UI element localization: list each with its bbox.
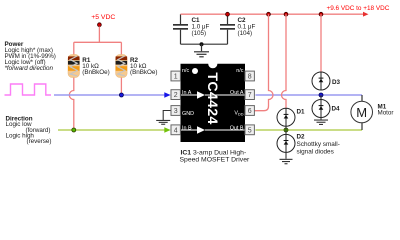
wire R2 lower lead to PWM line <box>120 77 122 95</box>
svg-text:IC1 3-amp Dual High-: IC1 3-amp Dual High- <box>181 150 247 157</box>
resistor R2 <box>116 55 158 78</box>
ground (D2) <box>280 152 293 164</box>
wire motor top lead <box>361 95 363 102</box>
wire cap common bottom <box>181 43 228 45</box>
arrowhead In A <box>164 92 170 98</box>
wire In B direction (green) <box>58 129 167 131</box>
wire R1 lower lead to direction line (hop over blue) <box>69 77 74 130</box>
wire motor bottom lead <box>361 123 363 131</box>
junction rail-C2 dot <box>226 12 230 16</box>
svg-text:Out A: Out A <box>230 90 244 96</box>
svg-text:D2: D2 <box>297 134 306 141</box>
svg-text:signal diodes: signal diodes <box>297 148 334 155</box>
diode D1 <box>277 108 305 130</box>
IC buffer A triangle <box>197 91 205 99</box>
IC pin 6 box <box>245 106 254 116</box>
wire Out A to motor (blue) <box>256 94 363 96</box>
svg-text:Motor: Motor <box>378 110 394 117</box>
svg-text:3: 3 <box>174 108 178 115</box>
svg-text:n/c: n/c <box>182 68 189 74</box>
junction rail-D3 dot <box>319 12 323 16</box>
svg-text:TC4424: TC4424 <box>204 72 220 124</box>
IC pin 7 box <box>245 90 254 100</box>
wire D1 riser (rail to D1) <box>282 14 287 108</box>
IC internal channel B line <box>181 129 245 131</box>
capacitor C2 <box>220 14 255 44</box>
svg-text:n/c: n/c <box>236 68 243 74</box>
svg-text:8: 8 <box>248 74 252 81</box>
IC pin 4 box <box>171 125 180 135</box>
diode D2 <box>277 130 340 155</box>
motor M1 <box>351 101 394 123</box>
wire D3 riser (rail to D3) <box>320 14 322 72</box>
svg-text:VDD: VDD <box>234 111 243 117</box>
wire Out B to motor (green) <box>256 129 363 131</box>
wire +5V to R1/R2 tops <box>74 27 122 56</box>
label Direction input <box>6 116 52 146</box>
junction rail-VDD dot <box>267 12 271 16</box>
label Power input <box>5 41 56 72</box>
svg-text:7: 7 <box>248 92 252 99</box>
svg-text:4: 4 <box>174 127 178 134</box>
svg-text:(BnBkOe): (BnBkOe) <box>82 69 109 76</box>
IC pin 3 box <box>171 106 180 116</box>
label IC1 caption <box>180 150 250 164</box>
svg-text:+9.6 VDC to +18 VDC: +9.6 VDC to +18 VDC <box>327 5 390 12</box>
junction R2/blue dot <box>119 93 123 97</box>
junction OutA-D3/D4 dot <box>319 93 323 97</box>
arrowhead In B <box>164 127 170 133</box>
svg-text:In A: In A <box>182 90 192 96</box>
svg-text:6: 6 <box>248 108 252 115</box>
ground (pin 3) <box>156 111 171 125</box>
svg-text:1: 1 <box>174 74 178 81</box>
svg-text:M: M <box>356 105 367 120</box>
ground (C1/C2) <box>194 44 209 57</box>
svg-text:(105): (105) <box>192 30 207 37</box>
svg-text:Speed MOSFET Driver: Speed MOSFET Driver <box>180 157 250 164</box>
IC buffer B triangle <box>197 126 205 134</box>
diode D3 <box>312 72 341 90</box>
junction R1/green dot <box>72 128 76 132</box>
arrowhead rail <box>363 12 369 17</box>
waveform PWM input <box>5 84 52 95</box>
IC pin 8 box <box>245 71 254 81</box>
svg-text:(reverse): (reverse) <box>27 138 52 145</box>
power rail +9.6 to +18 VDC <box>181 13 365 15</box>
svg-text:In B: In B <box>182 125 192 131</box>
wire VDD riser (pin6 to rail) <box>255 14 274 111</box>
svg-text:D3: D3 <box>332 79 341 86</box>
svg-text:D4: D4 <box>332 105 341 112</box>
junction caps-ground dot <box>200 42 204 46</box>
svg-text:2: 2 <box>174 92 178 99</box>
svg-text:(104): (104) <box>238 30 253 37</box>
svg-text:GND: GND <box>182 111 194 117</box>
svg-text:+5 VDC: +5 VDC <box>91 14 115 21</box>
IC internal channel A line <box>181 94 245 96</box>
IC IC1 TC4424 body <box>181 64 246 142</box>
svg-text:5: 5 <box>248 127 252 134</box>
diode D4 <box>312 95 340 118</box>
resistor R1 <box>68 55 110 78</box>
IC pin 2 box <box>171 90 180 100</box>
junction rail-D1 dot <box>284 12 288 16</box>
junction OutB-D1/D2 dot <box>284 128 288 132</box>
IC pin 1 box <box>171 71 180 81</box>
svg-text:D1: D1 <box>297 109 306 116</box>
svg-text:Out B: Out B <box>230 125 244 131</box>
ground (D4) <box>314 118 328 126</box>
svg-text:*forward direction: *forward direction <box>5 65 54 72</box>
wire In A PWM (blue) <box>54 94 167 96</box>
svg-text:Schottky small-: Schottky small- <box>297 141 340 148</box>
IC pin 5 box <box>245 125 254 135</box>
node +5V terminal dot <box>98 23 102 27</box>
svg-text:(BnBkOe): (BnBkOe) <box>130 69 157 76</box>
capacitor C1 <box>173 14 209 44</box>
